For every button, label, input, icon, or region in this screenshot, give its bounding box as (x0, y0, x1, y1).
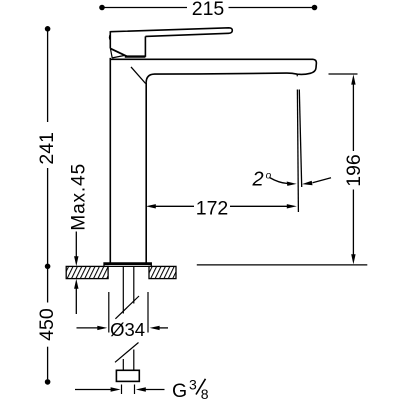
deck left hatched section (66, 266, 108, 278)
supply pipe lower left line (122, 359, 124, 370)
faucet inner diagonal (131, 67, 146, 84)
node dot right 215 (312, 5, 318, 11)
svg-text:215: 215 (192, 0, 225, 20)
wire G3/8 extension line left (121, 385, 123, 395)
angle leader arrow left (270, 178, 288, 184)
supply pipe upper left line (122, 267, 124, 314)
supply pipe upper right line (133, 267, 135, 304)
wire dimension line 196 (352, 82, 354, 257)
svg-text:Max.45: Max.45 (68, 163, 89, 231)
wire 196 bottom reference line (197, 264, 367, 266)
thread block G3/8 (116, 370, 139, 381)
faucet wedge hypotenuse (112, 55, 125, 58)
supply pipe lower right line (133, 350, 135, 371)
faucet handle stem (144, 36, 146, 57)
svg-text:3: 3 (189, 377, 197, 393)
wire G3/8 left arrow (75, 389, 111, 391)
wire Max.45 lower arrow (75, 287, 77, 314)
faucet housing left edge (109, 31, 111, 48)
faucet housing chamfer (110, 48, 126, 56)
faucet body left edge (109, 58, 111, 263)
node dot bottom 450 (45, 379, 51, 385)
wire G3/8 right arrow (145, 389, 165, 391)
wire dimension line 241 left (47, 31, 49, 263)
wire Max.45 upper arrow (75, 232, 77, 259)
angle leader arrow right (313, 178, 332, 183)
wire 196 top reference line (329, 73, 358, 75)
wire dimension line 172 (154, 205, 288, 207)
node dot deck level (45, 264, 51, 270)
svg-text:2: 2 (252, 168, 264, 190)
svg-text:8: 8 (201, 386, 209, 400)
svg-text:241: 241 (36, 132, 58, 165)
wire dimension line 450 left (47, 269, 49, 379)
svg-text:o: o (266, 170, 272, 181)
base plate (104, 263, 151, 267)
base plate bottom edge (104, 265, 151, 267)
faucet body top edge (110, 58, 313, 60)
wire Ø34 extension line left (108, 292, 110, 333)
pipe break slash upper (115, 296, 139, 319)
wire dimension line 215 top (104, 7, 312, 9)
faucet handle skirt bottom thick (125, 55, 146, 57)
svg-text:172: 172 (196, 198, 229, 220)
wire G3/8 extension line right (134, 385, 136, 395)
svg-text:196: 196 (343, 154, 365, 187)
node dot left 215 (99, 5, 105, 11)
svg-text:G: G (172, 380, 187, 400)
svg-text:Ø34: Ø34 (110, 319, 145, 340)
faucet handle left end arc (108, 34, 111, 40)
faucet spout tip (146, 59, 316, 82)
water stream tilted line (299, 90, 301, 188)
deck right hatched section (149, 266, 176, 278)
water stream vertical line (297, 90, 298, 213)
faucet aerator tick (296, 74, 298, 76)
svg-text:450: 450 (36, 308, 58, 341)
faucet wedge front (110, 48, 112, 58)
faucet body right edge (145, 83, 147, 263)
faucet lever handle (110, 28, 232, 37)
node dot top 241 (45, 26, 51, 32)
wire Ø34 extension line right (147, 292, 149, 333)
wire Ø34 right arrow (159, 327, 169, 329)
base plate top thick edge (104, 263, 152, 265)
wire Ø34 left arrow (77, 327, 99, 329)
pipe break slash lower (115, 343, 139, 363)
